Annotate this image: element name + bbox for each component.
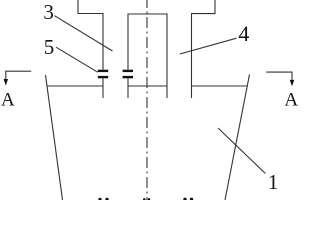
svg-text:A: A bbox=[1, 90, 15, 111]
svg-text:1: 1 bbox=[268, 170, 279, 194]
svg-text:3: 3 bbox=[43, 0, 54, 24]
svg-text:5: 5 bbox=[44, 35, 55, 59]
svg-text:A: A bbox=[284, 90, 298, 111]
svg-text:4: 4 bbox=[238, 21, 249, 46]
